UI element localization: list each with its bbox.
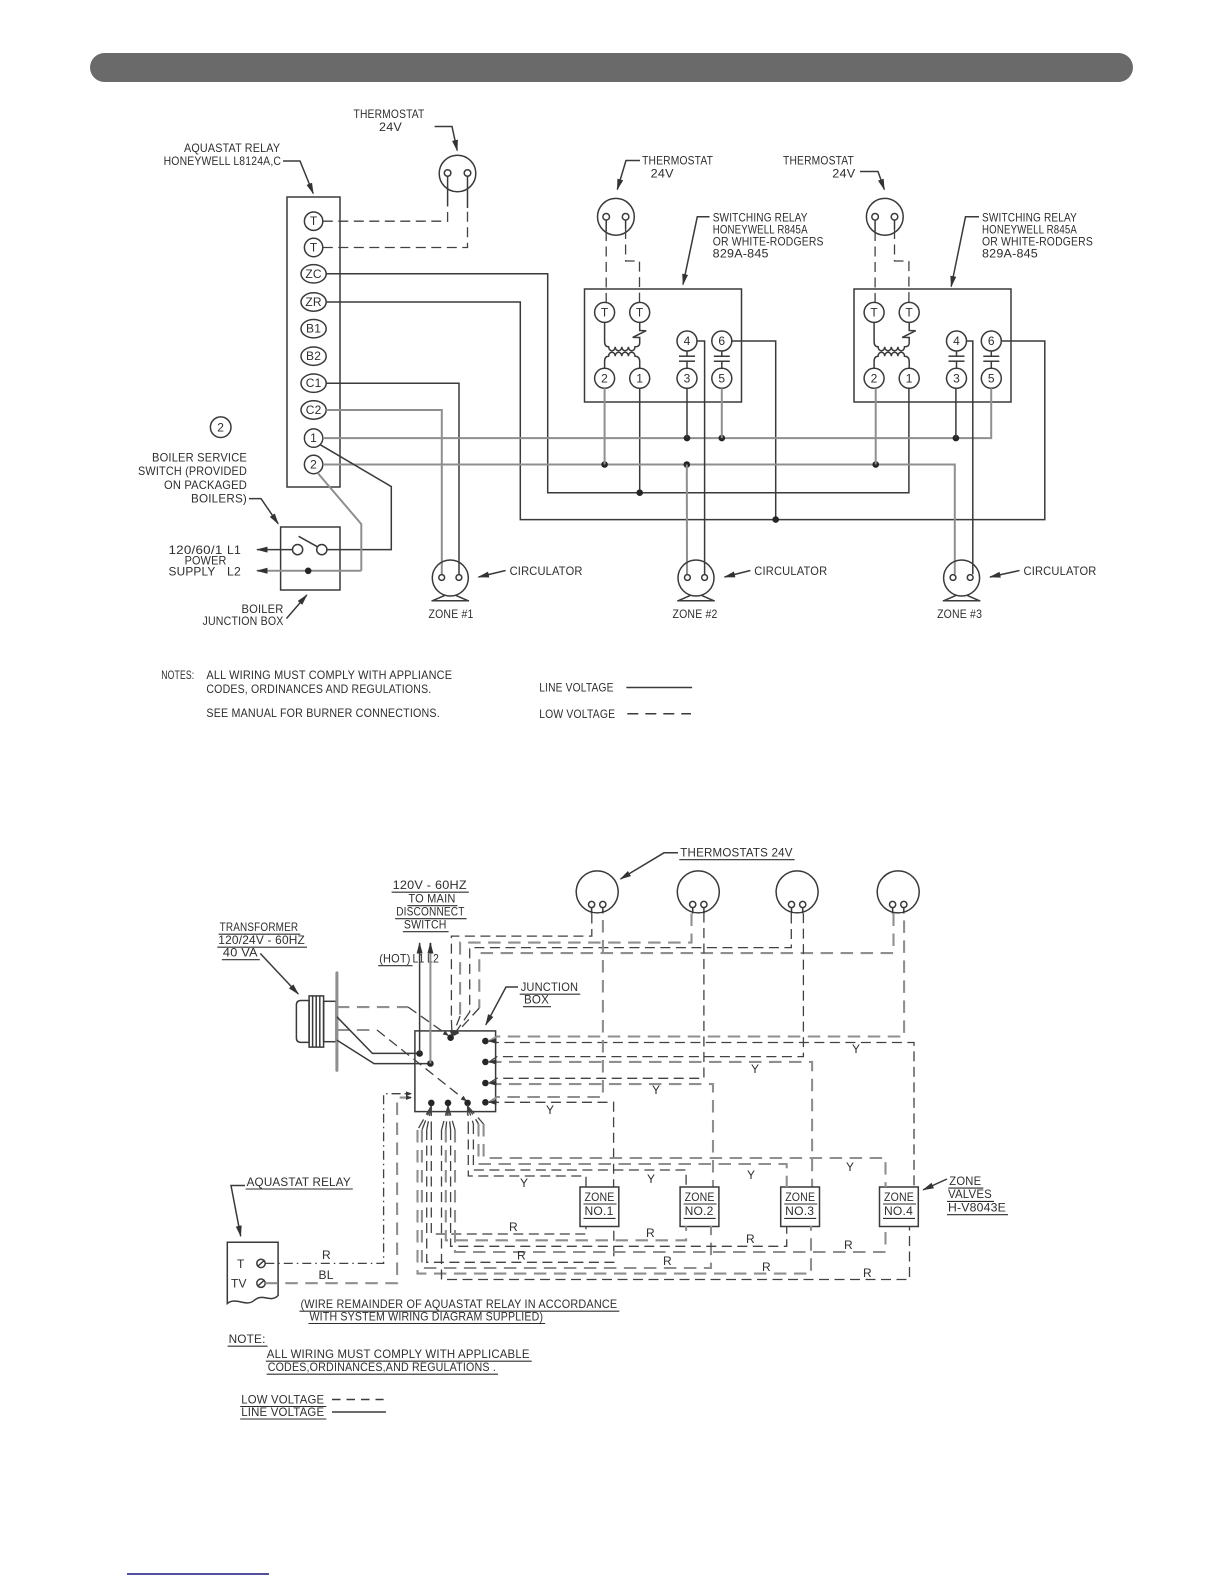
svg-text:829A-845: 829A-845: [713, 246, 769, 260]
svg-text:VALVES: VALVES: [948, 1187, 992, 1201]
svg-text:B2: B2: [306, 349, 321, 363]
svg-text:Y: Y: [846, 1160, 854, 1174]
svg-text:829A-845: 829A-845: [982, 246, 1038, 260]
svg-text:L1: L1: [227, 543, 241, 557]
svg-text:AQUASTAT RELAY: AQUASTAT RELAY: [247, 1175, 351, 1189]
svg-text:24V: 24V: [379, 120, 402, 134]
svg-text:LINE VOLTAGE: LINE VOLTAGE: [539, 681, 614, 695]
svg-text:JUNCTION BOX: JUNCTION BOX: [203, 614, 284, 628]
svg-text:BOILERS): BOILERS): [191, 492, 247, 506]
svg-text:R: R: [844, 1238, 853, 1252]
svg-text:C1: C1: [306, 376, 322, 390]
svg-text:LOW VOLTAGE: LOW VOLTAGE: [539, 707, 615, 721]
svg-text:TV: TV: [231, 1277, 247, 1291]
svg-text:T: T: [310, 214, 318, 228]
svg-text:2: 2: [601, 372, 608, 386]
svg-text:L2: L2: [227, 565, 241, 579]
svg-text:ZC: ZC: [305, 267, 322, 281]
svg-text:THERMOSTAT: THERMOSTAT: [354, 107, 425, 121]
svg-text:5: 5: [718, 372, 725, 386]
svg-text:6: 6: [988, 334, 995, 348]
svg-text:SEE MANUAL FOR BURNER CONNECTI: SEE MANUAL FOR BURNER CONNECTIONS.: [206, 706, 440, 720]
svg-text:5: 5: [988, 372, 995, 386]
svg-text:Y: Y: [647, 1172, 655, 1186]
svg-text:ZONE: ZONE: [785, 1190, 815, 1204]
svg-text:Y: Y: [852, 1042, 860, 1056]
svg-text:ZONE #3: ZONE #3: [937, 607, 982, 621]
svg-text:T: T: [237, 1257, 245, 1271]
svg-text:3: 3: [953, 372, 960, 386]
svg-text:ZONE #1: ZONE #1: [429, 607, 474, 621]
svg-text:BOX: BOX: [524, 993, 549, 1007]
svg-text:Y: Y: [520, 1176, 528, 1190]
svg-text:4: 4: [684, 334, 691, 348]
svg-text:40 VA: 40 VA: [223, 946, 258, 960]
svg-text:T: T: [870, 306, 878, 320]
svg-text:R: R: [762, 1260, 771, 1274]
svg-text:ALL WIRING MUST COMPLY WITH AP: ALL WIRING MUST COMPLY WITH APPLIANCE: [206, 668, 452, 682]
svg-text:R: R: [746, 1232, 755, 1246]
svg-text:CIRCULATOR: CIRCULATOR: [510, 564, 583, 578]
svg-text:24V: 24V: [651, 167, 674, 181]
svg-text:R: R: [863, 1266, 872, 1280]
svg-text:CODES, ORDINANCES AND REGULATI: CODES, ORDINANCES AND REGULATIONS.: [206, 682, 431, 696]
svg-text:2: 2: [310, 458, 317, 472]
svg-text:T: T: [905, 306, 913, 320]
svg-text:ON PACKAGED: ON PACKAGED: [164, 478, 247, 492]
svg-text:R: R: [517, 1249, 526, 1263]
svg-text:DISCONNECT: DISCONNECT: [396, 905, 465, 919]
svg-text:TRANSFORMER: TRANSFORMER: [220, 920, 299, 934]
svg-text:1: 1: [906, 372, 913, 386]
svg-text:ZONE: ZONE: [884, 1190, 914, 1204]
svg-text:Y: Y: [747, 1168, 755, 1182]
svg-text:CIRCULATOR: CIRCULATOR: [754, 564, 827, 578]
svg-text:C2: C2: [306, 403, 322, 417]
svg-text:SWITCH (PROVIDED: SWITCH (PROVIDED: [138, 464, 247, 478]
svg-text:ZONE #2: ZONE #2: [673, 607, 718, 621]
svg-text:2: 2: [217, 421, 224, 435]
svg-text:THERMOSTAT: THERMOSTAT: [642, 154, 713, 168]
svg-text:120V - 60HZ: 120V - 60HZ: [393, 878, 467, 892]
svg-text:CIRCULATOR: CIRCULATOR: [1024, 564, 1097, 578]
svg-text:BOILER SERVICE: BOILER SERVICE: [152, 450, 247, 464]
svg-text:24V: 24V: [832, 167, 855, 181]
svg-text:ZR: ZR: [305, 295, 322, 309]
svg-text:Y: Y: [546, 1103, 554, 1117]
svg-text:TO MAIN: TO MAIN: [408, 892, 455, 906]
svg-text:1: 1: [310, 431, 317, 445]
svg-text:AQUASTAT RELAY: AQUASTAT RELAY: [184, 141, 280, 155]
svg-text:THERMOSTATS 24V: THERMOSTATS 24V: [680, 846, 792, 860]
svg-text:NOTE:: NOTE:: [229, 1332, 266, 1346]
svg-text:NO.3: NO.3: [785, 1204, 814, 1218]
svg-text:4: 4: [953, 334, 960, 348]
svg-text:T: T: [636, 306, 644, 320]
svg-text:ALL WIRING MUST COMPLY WITH AP: ALL WIRING MUST COMPLY WITH APPLICABLE: [267, 1347, 530, 1361]
svg-text:THERMOSTAT: THERMOSTAT: [783, 154, 854, 168]
svg-text:ZONE: ZONE: [585, 1190, 615, 1204]
svg-text:T: T: [601, 306, 609, 320]
svg-text:BL: BL: [319, 1268, 334, 1282]
svg-text:B1: B1: [306, 322, 321, 336]
svg-text:CODES,ORDINANCES,AND REGULATIO: CODES,ORDINANCES,AND REGULATIONS .: [268, 1360, 496, 1374]
svg-text:R: R: [322, 1248, 331, 1262]
svg-text:ZONE: ZONE: [685, 1190, 715, 1204]
svg-text:R: R: [646, 1226, 655, 1240]
svg-text:2: 2: [871, 372, 878, 386]
svg-text:LINE VOLTAGE: LINE VOLTAGE: [241, 1405, 324, 1419]
svg-text:(HOT): (HOT): [379, 952, 410, 966]
svg-text:Y: Y: [652, 1083, 660, 1097]
svg-text:ZONE: ZONE: [949, 1174, 981, 1188]
svg-text:NO.4: NO.4: [884, 1204, 913, 1218]
svg-text:T: T: [310, 241, 318, 255]
svg-text:NO.1: NO.1: [585, 1204, 614, 1218]
svg-text:H-V8043E: H-V8043E: [948, 1201, 1006, 1215]
svg-text:1: 1: [636, 372, 643, 386]
svg-text:HONEYWELL L8124A,C: HONEYWELL L8124A,C: [164, 154, 282, 168]
svg-text:R: R: [663, 1254, 672, 1268]
svg-text:SWITCH: SWITCH: [404, 918, 447, 932]
svg-text:NO.2: NO.2: [685, 1204, 714, 1218]
svg-text:WITH SYSTEM WIRING DIAGRAM SUP: WITH SYSTEM WIRING DIAGRAM SUPPLIED): [310, 1309, 544, 1323]
svg-text:6: 6: [718, 334, 725, 348]
svg-text:R: R: [509, 1220, 518, 1234]
svg-text:3: 3: [684, 372, 691, 386]
svg-text:SUPPLY: SUPPLY: [169, 565, 216, 579]
svg-text:L1: L1: [413, 952, 425, 966]
svg-text:L2: L2: [427, 952, 439, 966]
svg-text:NOTES:: NOTES:: [161, 668, 194, 682]
svg-text:Y: Y: [751, 1062, 759, 1076]
